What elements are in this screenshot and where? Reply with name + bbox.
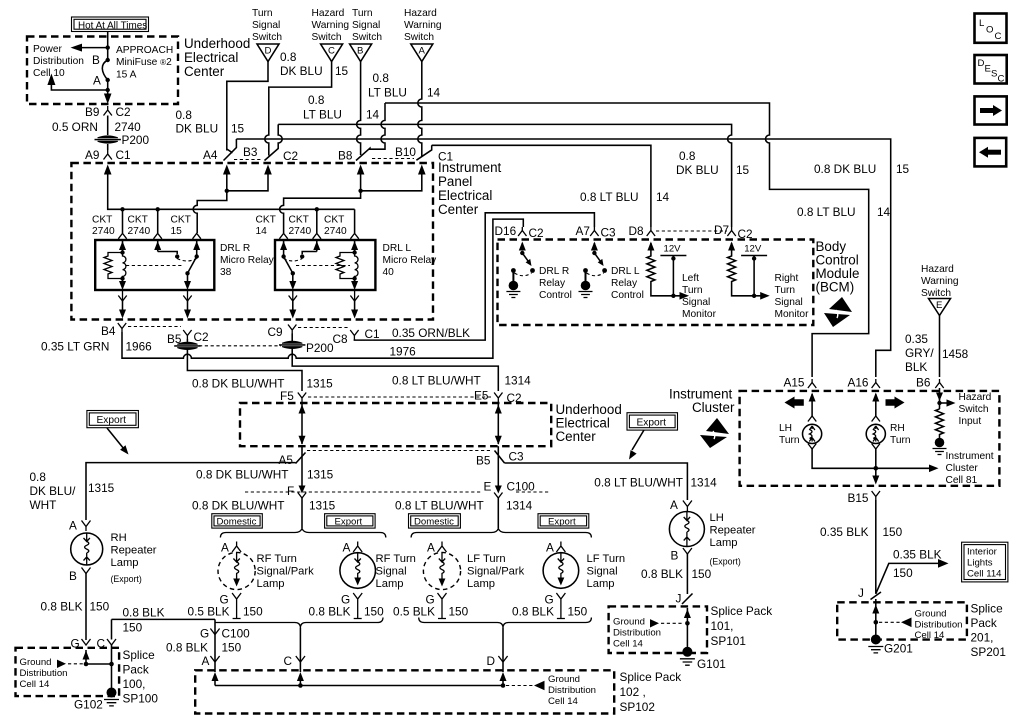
svg-text:0.35 BLK: 0.35 BLK bbox=[893, 548, 942, 562]
svg-text:0.8 LT BLU: 0.8 LT BLU bbox=[580, 190, 639, 204]
svg-text:Left: Left bbox=[682, 273, 699, 284]
ESD symbol at cluster bbox=[700, 418, 729, 448]
svg-text:Instrument: Instrument bbox=[946, 451, 994, 462]
svg-text:Cell 14: Cell 14 bbox=[613, 639, 644, 650]
ground brace LF lamps bbox=[419, 618, 592, 629]
wire B3 entry left to A4 dot bbox=[227, 172, 268, 191]
arrow from Export to RH repeater wire bbox=[107, 428, 124, 449]
svg-text:0.8 BLK: 0.8 BLK bbox=[166, 641, 208, 655]
svg-text:C: C bbox=[995, 31, 1002, 42]
svg-text:1314: 1314 bbox=[505, 374, 532, 388]
svg-text:C2: C2 bbox=[738, 227, 753, 241]
svg-text:Distribution: Distribution bbox=[613, 628, 661, 639]
svg-text:CKT: CKT bbox=[128, 215, 148, 226]
svg-text:C100: C100 bbox=[222, 627, 251, 641]
relay DRL L Micro Relay 40 box bbox=[275, 240, 375, 290]
svg-text:150: 150 bbox=[692, 567, 712, 581]
svg-text:SP201: SP201 bbox=[971, 645, 1006, 659]
svg-text:101,: 101, bbox=[711, 619, 734, 633]
svg-text:B: B bbox=[357, 46, 363, 57]
splice symbol P200 bbox=[95, 135, 121, 143]
legend box LOC bbox=[975, 14, 1007, 43]
wire A5 down to F bbox=[301, 446, 303, 487]
svg-text:Underhood: Underhood bbox=[184, 36, 250, 51]
LF Turn Signal/Park Lamp (domestic, dashed) bbox=[393, 541, 525, 619]
svg-text:Export: Export bbox=[97, 415, 127, 426]
wire B5 to F5 bbox=[187, 339, 302, 391]
wire SP100-C branch bbox=[112, 619, 216, 672]
wire C9 to E5 bbox=[292, 334, 498, 392]
svg-text:Ground: Ground bbox=[915, 609, 947, 620]
svg-text:0.5 ORN: 0.5 ORN bbox=[52, 120, 98, 134]
svg-text:A15: A15 bbox=[784, 376, 805, 390]
svg-text:Pack: Pack bbox=[971, 616, 997, 630]
svg-text:L: L bbox=[979, 18, 985, 29]
svg-text:12V: 12V bbox=[744, 244, 762, 255]
dashed connector link C9 to C8 bbox=[298, 327, 348, 329]
svg-text:E: E bbox=[936, 300, 942, 311]
splice P200 on C9 wire bbox=[279, 341, 305, 349]
svg-text:14: 14 bbox=[366, 108, 380, 122]
label box Export (left) bbox=[87, 411, 138, 428]
svg-text:Lamp: Lamp bbox=[467, 578, 495, 590]
junction dot bbox=[106, 45, 110, 49]
svg-text:Switch: Switch bbox=[959, 404, 989, 415]
svg-text:(Export): (Export) bbox=[111, 574, 142, 584]
svg-text:D16: D16 bbox=[495, 224, 517, 238]
svg-text:1458: 1458 bbox=[942, 347, 969, 361]
svg-text:150: 150 bbox=[883, 525, 903, 539]
wire A9 entry down to 2740 bus bbox=[108, 172, 355, 209]
svg-text:0.8 DK BLU/WHT: 0.8 DK BLU/WHT bbox=[196, 468, 288, 482]
svg-text:Lamp: Lamp bbox=[111, 557, 139, 569]
wire from splice to A9 bbox=[107, 144, 109, 150]
svg-text:15: 15 bbox=[896, 162, 910, 176]
svg-text:Center: Center bbox=[556, 429, 597, 444]
svg-text:Distribution: Distribution bbox=[33, 56, 84, 67]
connector Y at B9|C2 bbox=[104, 106, 112, 116]
svg-text:Repeater: Repeater bbox=[710, 525, 756, 537]
svg-text:A: A bbox=[93, 74, 101, 88]
svg-text:A: A bbox=[202, 654, 210, 668]
CKT column taps from bus bbox=[122, 209, 124, 233]
svg-text:SP101: SP101 bbox=[711, 634, 746, 648]
svg-text:LT BLU: LT BLU bbox=[368, 86, 407, 100]
svg-text:J: J bbox=[676, 592, 682, 606]
svg-text:Micro Relay: Micro Relay bbox=[220, 255, 275, 266]
svg-text:Center: Center bbox=[438, 202, 479, 217]
svg-text:0.8 LT BLU/WHT: 0.8 LT BLU/WHT bbox=[392, 374, 481, 388]
svg-text:A: A bbox=[419, 46, 426, 57]
svg-text:DRL R: DRL R bbox=[539, 266, 569, 277]
svg-text:1976: 1976 bbox=[390, 345, 417, 359]
svg-text:Signal: Signal bbox=[682, 297, 710, 308]
svg-text:B: B bbox=[671, 549, 679, 563]
splice junction dot bbox=[874, 620, 879, 625]
Underhood Electrical Center box 2 (dashed) bbox=[240, 403, 551, 446]
wire from C: down, left, down to C2 (hops H2) bbox=[265, 62, 332, 156]
connector slant B10|C1 with D8 leg bbox=[416, 145, 431, 160]
svg-text:P200: P200 bbox=[306, 341, 334, 355]
RF Turn Signal Lamp (export, solid) bbox=[309, 541, 416, 619]
svg-text:LF Turn: LF Turn bbox=[467, 553, 506, 565]
svg-text:B4: B4 bbox=[101, 324, 116, 338]
svg-text:Cell 10: Cell 10 bbox=[33, 68, 65, 79]
wire B8 entry down through dot, jog left to CKT14 column bbox=[280, 172, 361, 233]
entry arrows A C D bbox=[212, 672, 219, 681]
svg-text:Export: Export bbox=[637, 418, 667, 429]
svg-text:B6: B6 bbox=[916, 376, 931, 390]
svg-text:C8: C8 bbox=[333, 332, 349, 346]
svg-text:Switch: Switch bbox=[312, 32, 342, 43]
svg-text:O: O bbox=[986, 25, 993, 36]
svg-text:Export: Export bbox=[335, 516, 363, 527]
svg-text:Turn: Turn bbox=[252, 8, 273, 19]
ground G201 bbox=[871, 635, 881, 645]
svg-text:15: 15 bbox=[736, 163, 750, 177]
DRL L switch blade from CKT14 bbox=[281, 254, 285, 258]
svg-text:P200: P200 bbox=[122, 133, 150, 147]
svg-text:100,: 100, bbox=[123, 677, 146, 691]
svg-text:Splice: Splice bbox=[123, 648, 156, 662]
connector triangle E bbox=[929, 299, 951, 316]
svg-text:Distribution: Distribution bbox=[548, 685, 596, 696]
through-wire E5 to B5 with arrows bbox=[497, 402, 499, 444]
svg-text:Signal/Park: Signal/Park bbox=[257, 566, 315, 578]
svg-text:C3: C3 bbox=[509, 450, 525, 464]
svg-text:Switch: Switch bbox=[252, 32, 282, 43]
svg-text:Ground: Ground bbox=[548, 674, 580, 685]
svg-text:BLK: BLK bbox=[905, 360, 927, 374]
svg-text:MiniFuse ®2: MiniFuse ®2 bbox=[116, 57, 172, 68]
svg-text:CKT: CKT bbox=[92, 215, 112, 226]
dashed splice link bbox=[199, 345, 281, 347]
svg-text:Cell 81: Cell 81 bbox=[946, 475, 978, 486]
svg-text:0.8: 0.8 bbox=[308, 93, 325, 107]
svg-text:Export: Export bbox=[548, 516, 576, 527]
svg-text:14: 14 bbox=[427, 86, 441, 100]
wire exiting box with down arrow bbox=[107, 90, 109, 97]
svg-text:DK BLU: DK BLU bbox=[280, 64, 323, 78]
ground G101 bbox=[682, 647, 692, 657]
dashed ground reference link bbox=[68, 663, 83, 665]
svg-text:RH: RH bbox=[111, 532, 127, 544]
svg-text:12V: 12V bbox=[664, 244, 682, 255]
connector slant B3|C2 with H1 leg bbox=[265, 124, 283, 160]
svg-text:S: S bbox=[991, 69, 997, 80]
svg-text:0.8: 0.8 bbox=[679, 149, 696, 163]
instrument cluster box (dashed) bbox=[740, 391, 1000, 486]
ground brace RF lamps bbox=[215, 618, 383, 629]
svg-text:Turn: Turn bbox=[682, 285, 703, 296]
svg-text:Signal: Signal bbox=[775, 297, 803, 308]
svg-text:0.8 BLK: 0.8 BLK bbox=[41, 600, 83, 614]
connector slant B8 with H3 leg bbox=[356, 103, 385, 161]
svg-text:B15: B15 bbox=[848, 491, 869, 505]
svg-text:D: D bbox=[487, 654, 496, 668]
entry arrows inside BCM bbox=[521, 243, 523, 251]
wire below fuse bbox=[51, 80, 107, 90]
wire from B: down to B8 (hops H1,H2) bbox=[357, 62, 361, 156]
svg-text:(Export): (Export) bbox=[710, 557, 741, 567]
svg-text:DRL L: DRL L bbox=[611, 266, 640, 277]
svg-text:RF Turn: RF Turn bbox=[257, 553, 297, 565]
svg-text:A5: A5 bbox=[279, 453, 294, 467]
wire H2: A4 connector to instrument cluster A16 via right side bbox=[236, 139, 890, 377]
svg-text:Signal: Signal bbox=[587, 566, 618, 578]
LF Turn Signal Lamp (export, solid) bbox=[512, 541, 625, 619]
svg-text:15: 15 bbox=[335, 64, 349, 78]
svg-text:A: A bbox=[546, 541, 554, 555]
svg-text:0.8 DK BLU: 0.8 DK BLU bbox=[814, 162, 876, 176]
svg-text:G101: G101 bbox=[697, 657, 726, 671]
connector triangle B bbox=[350, 44, 372, 62]
svg-text:Control: Control bbox=[539, 290, 572, 301]
dashed connector link F5 to E5 bbox=[308, 396, 492, 398]
split brace (F wire to RF lamps) bbox=[220, 529, 385, 538]
svg-text:Monitor: Monitor bbox=[775, 309, 810, 320]
B15 exit arrow bbox=[872, 476, 879, 485]
label box Interior Lights Cell 114 bbox=[962, 542, 1008, 582]
dashed connector link D8-D7 bbox=[656, 230, 727, 232]
Instrument Panel Electrical Center box (dashed) bbox=[71, 163, 433, 320]
svg-text:Warning: Warning bbox=[404, 20, 442, 31]
svg-text:E5: E5 bbox=[474, 389, 489, 403]
svg-text:B9: B9 bbox=[85, 105, 99, 119]
svg-text:Ground: Ground bbox=[613, 617, 645, 628]
Body Control Module box (dashed) bbox=[498, 240, 814, 326]
svg-text:Ground: Ground bbox=[20, 657, 52, 668]
svg-text:Micro Relay: Micro Relay bbox=[383, 255, 438, 266]
svg-text:LT BLU: LT BLU bbox=[303, 108, 342, 122]
svg-text:Signal: Signal bbox=[252, 20, 280, 31]
svg-text:0.35 BLK: 0.35 BLK bbox=[820, 525, 869, 539]
entry arrow J bbox=[686, 608, 688, 651]
svg-text:F: F bbox=[287, 484, 294, 498]
svg-text:A: A bbox=[670, 498, 678, 512]
svg-text:0.8 BLK: 0.8 BLK bbox=[641, 567, 683, 581]
splice pack 102 box (dashed) bbox=[195, 670, 614, 713]
svg-text:0.8 BLK: 0.8 BLK bbox=[309, 605, 351, 619]
hazard switch input wire bbox=[939, 388, 941, 395]
splice pack 101 box (dashed) bbox=[609, 606, 707, 653]
svg-text:2740: 2740 bbox=[92, 226, 115, 237]
svg-text:C1: C1 bbox=[116, 148, 131, 162]
svg-text:Instrument: Instrument bbox=[438, 160, 502, 175]
svg-text:Signal: Signal bbox=[352, 20, 380, 31]
svg-text:150: 150 bbox=[90, 600, 110, 614]
svg-text:0.5 BLK: 0.5 BLK bbox=[393, 605, 435, 619]
wire from A: down to B10 (hops H3,H1,H2) bbox=[418, 62, 422, 157]
svg-text:C2: C2 bbox=[529, 226, 544, 240]
entry arrows at top edge bbox=[104, 165, 112, 175]
entry arrow bbox=[875, 599, 877, 640]
exit wires and arrows at box bottom bbox=[122, 301, 124, 311]
svg-text:A7: A7 bbox=[576, 224, 590, 238]
wire 0.35 ORN/BLK to BCM A7 bbox=[354, 213, 594, 340]
svg-text:LH: LH bbox=[710, 512, 724, 524]
svg-text:1315: 1315 bbox=[307, 377, 334, 391]
DRL R relay control switch bbox=[520, 251, 524, 255]
label box Export 2 bbox=[538, 514, 589, 528]
svg-text:150: 150 bbox=[364, 605, 384, 619]
DRL L fixed contact from CKT2740 bbox=[302, 252, 317, 255]
svg-text:1315: 1315 bbox=[307, 468, 334, 482]
svg-text:Signal/Park: Signal/Park bbox=[467, 566, 525, 578]
svg-text:15 A: 15 A bbox=[116, 70, 137, 81]
svg-text:Splice Pack: Splice Pack bbox=[711, 604, 773, 618]
svg-text:150: 150 bbox=[893, 566, 913, 580]
svg-text:CKT: CKT bbox=[171, 215, 191, 226]
svg-text:201,: 201, bbox=[971, 631, 994, 645]
svg-text:Distribution: Distribution bbox=[20, 668, 68, 679]
svg-text:C: C bbox=[328, 46, 335, 57]
wire H1: C2 connector to BCM D7 bbox=[278, 124, 731, 227]
svg-text:C3: C3 bbox=[601, 226, 617, 240]
RF Turn Signal/Park Lamp (domestic, dashed) bbox=[188, 541, 315, 619]
svg-text:C2: C2 bbox=[116, 105, 131, 119]
relay DRL R Micro Relay 38 box bbox=[95, 240, 214, 290]
svg-text:102 ,: 102 , bbox=[620, 685, 646, 699]
svg-text:Hazard: Hazard bbox=[404, 8, 437, 19]
wire E down to split bbox=[497, 498, 499, 528]
svg-text:Control: Control bbox=[611, 290, 644, 301]
svg-text:15: 15 bbox=[231, 122, 245, 136]
label box Domestic 2 bbox=[409, 514, 461, 528]
svg-text:D8: D8 bbox=[629, 224, 645, 238]
svg-text:C2: C2 bbox=[283, 149, 298, 163]
svg-text:Turn: Turn bbox=[352, 8, 373, 19]
wire C tap to SP102 bbox=[299, 628, 301, 672]
svg-text:0.8: 0.8 bbox=[30, 470, 47, 484]
DRL L relay control switch bbox=[592, 251, 596, 255]
svg-text:Input: Input bbox=[959, 416, 982, 427]
wire B15 down bbox=[875, 500, 877, 594]
arrow up to cell 10 bbox=[47, 74, 55, 86]
dashed connector link A4 to C2 bbox=[234, 159, 262, 161]
svg-text:Right: Right bbox=[775, 273, 799, 284]
svg-text:150: 150 bbox=[243, 605, 263, 619]
svg-text:0.8 LT BLU/WHT: 0.8 LT BLU/WHT bbox=[594, 476, 683, 490]
dashed connector link B8 to B10 bbox=[372, 158, 414, 160]
svg-text:A: A bbox=[427, 541, 435, 555]
svg-text:0.8 LT BLU/WHT: 0.8 LT BLU/WHT bbox=[395, 499, 484, 513]
solid left arrow symbol bbox=[791, 399, 804, 406]
svg-text:Repeater: Repeater bbox=[111, 545, 157, 557]
ESD symbol at BCM bbox=[824, 297, 852, 327]
wire: arrow to Power Distribution (left) bbox=[80, 47, 108, 49]
svg-text:A: A bbox=[69, 519, 77, 533]
svg-text:150: 150 bbox=[449, 605, 469, 619]
entry arrows A15 A16 bbox=[811, 394, 813, 400]
svg-text:Splice Pack: Splice Pack bbox=[620, 670, 682, 684]
svg-text:Lamp: Lamp bbox=[257, 578, 285, 590]
svg-text:C: C bbox=[284, 654, 293, 668]
svg-text:Lights: Lights bbox=[967, 558, 993, 569]
svg-text:0.35 LT GRN: 0.35 LT GRN bbox=[41, 340, 109, 354]
legend box left arrow bbox=[975, 138, 1007, 167]
connector triangle C bbox=[321, 44, 343, 62]
svg-text:J: J bbox=[858, 586, 864, 600]
svg-text:Switch: Switch bbox=[921, 288, 951, 299]
svg-text:150: 150 bbox=[123, 621, 143, 635]
svg-text:D: D bbox=[978, 58, 985, 69]
wire from D: down, left, down to A4 bbox=[227, 62, 268, 151]
svg-text:WHT: WHT bbox=[30, 498, 57, 512]
svg-text:C1: C1 bbox=[365, 327, 380, 341]
svg-text:2740: 2740 bbox=[289, 226, 312, 237]
svg-text:Relay: Relay bbox=[539, 278, 566, 289]
wire D tap to SP102 bbox=[502, 628, 504, 672]
connector slant A4 with H2 leg bbox=[224, 139, 237, 161]
svg-text:Relay: Relay bbox=[611, 278, 638, 289]
svg-text:0.8 DK BLU/WHT: 0.8 DK BLU/WHT bbox=[192, 377, 284, 391]
svg-text:Lamp: Lamp bbox=[587, 578, 615, 590]
splice on B5 wire bbox=[174, 342, 200, 350]
arrow from Export to LH repeater wire bbox=[632, 430, 644, 450]
svg-text:150: 150 bbox=[568, 605, 588, 619]
svg-text:C9: C9 bbox=[268, 325, 283, 339]
svg-text:Hazard: Hazard bbox=[921, 264, 954, 275]
svg-text:Center: Center bbox=[184, 64, 225, 79]
svg-text:Cluster: Cluster bbox=[946, 463, 979, 474]
right turn monitor resistor bbox=[728, 252, 762, 296]
svg-text:A: A bbox=[343, 541, 351, 555]
svg-text:A16: A16 bbox=[848, 376, 869, 390]
wire: B10|C1 to BCM D8 bbox=[432, 145, 651, 227]
svg-text:0.35 ORN/BLK: 0.35 ORN/BLK bbox=[392, 326, 470, 340]
svg-text:14: 14 bbox=[656, 190, 670, 204]
connector triangle A bbox=[411, 44, 433, 62]
LH Repeater Lamp (export) bbox=[641, 498, 756, 606]
wire B4 run to BCM D16 bbox=[122, 219, 523, 358]
svg-text:2740: 2740 bbox=[324, 226, 347, 237]
svg-text:GRY/: GRY/ bbox=[905, 346, 934, 360]
arrow to hazard switch input text bbox=[940, 402, 949, 404]
svg-text:Cluster: Cluster bbox=[692, 400, 735, 415]
dashed connector link B4 to B5 bbox=[128, 326, 181, 328]
label box: Hot At All Times bbox=[72, 17, 149, 32]
svg-text:LH: LH bbox=[779, 423, 792, 434]
svg-text:Turn: Turn bbox=[890, 435, 911, 446]
wire LH repeater feed (export) bbox=[505, 463, 688, 500]
svg-text:Domestic: Domestic bbox=[414, 516, 454, 527]
svg-text:DRL R: DRL R bbox=[220, 243, 250, 254]
splice pack 201 box (dashed) bbox=[837, 602, 967, 639]
svg-text:E: E bbox=[985, 64, 991, 75]
svg-text:SP100: SP100 bbox=[123, 692, 159, 706]
svg-text:Hazard: Hazard bbox=[312, 8, 345, 19]
svg-text:150: 150 bbox=[222, 641, 242, 655]
svg-text:Electrical: Electrical bbox=[184, 50, 238, 65]
svg-text:Cell 14: Cell 14 bbox=[548, 696, 579, 707]
svg-text:Electrical: Electrical bbox=[438, 188, 492, 203]
wire: feed from Hot box down into fuse bbox=[107, 32, 109, 60]
power distribution cell 10 box (dashed) bbox=[27, 37, 178, 105]
legend box right arrow bbox=[975, 96, 1007, 124]
splice bus bbox=[215, 685, 503, 687]
branch to interior lights bbox=[876, 563, 940, 593]
wire RH repeater feed (export) bbox=[86, 463, 296, 520]
svg-text:1966: 1966 bbox=[126, 340, 153, 354]
svg-text:1315: 1315 bbox=[309, 499, 336, 513]
svg-text:B8: B8 bbox=[338, 149, 353, 163]
svg-text:15: 15 bbox=[171, 226, 183, 237]
svg-text:C100: C100 bbox=[507, 480, 536, 494]
svg-text:0.8: 0.8 bbox=[176, 108, 193, 122]
svg-text:A4: A4 bbox=[203, 148, 218, 162]
svg-text:Power: Power bbox=[33, 44, 62, 55]
